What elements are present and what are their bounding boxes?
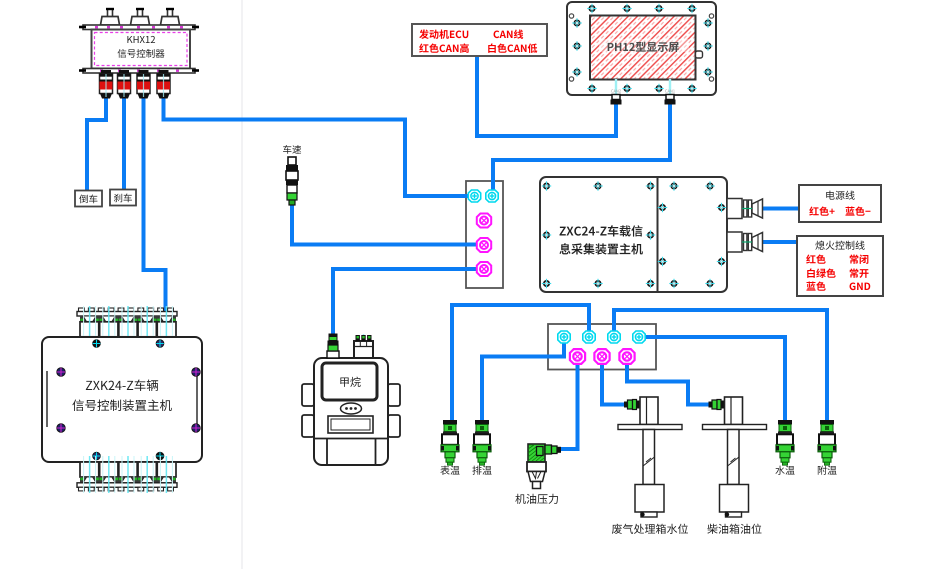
- KHX12 bottom cable connector 2: [118, 70, 131, 99]
- display CAN1 connector: [665, 79, 676, 105]
- ZXC screw 5: [705, 181, 714, 190]
- display right side tab: [696, 51, 703, 58]
- display screw left 1: [572, 18, 581, 27]
- display inner corner holes: [569, 14, 713, 81]
- display screw bottom 2: [622, 84, 631, 93]
- ZXC screw 16: [717, 257, 726, 266]
- display screen with red hatch: [590, 16, 696, 80]
- diesel tank fuel level sensor: [703, 397, 767, 534]
- ZXK24-Z bottom terminal row: [77, 456, 177, 493]
- power line label box: [799, 185, 881, 222]
- KHX12 bottom cable connector 3: [137, 70, 150, 99]
- ZXC24-Z acquisition unit body: [540, 177, 727, 292]
- auxiliary temperature sensor: [818, 420, 837, 475]
- wire KHX conn1 to reverse-signal box: [87, 95, 106, 191]
- junction strip port M1: [477, 214, 491, 228]
- display screw top 2: [622, 4, 631, 13]
- ZXC screw 7: [593, 279, 602, 288]
- surface temperature sensor: [440, 420, 459, 475]
- sensor strip cyan port 3: [608, 331, 620, 343]
- display screw right 3: [703, 67, 712, 76]
- wire ZXC power connector to power-line label: [763, 207, 798, 211]
- wire sensor strip mag2 to exhaust-tank level sensor: [602, 360, 626, 405]
- wire sensor strip mag3 to diesel-tank level sensor: [627, 360, 710, 405]
- ZXC screw 14: [658, 257, 667, 266]
- ZXC screw 11: [542, 230, 551, 239]
- sensor strip magenta port 1: [570, 349, 585, 364]
- display screw left 2: [572, 41, 581, 50]
- wire ZXC flameout connector to flameout-control label: [763, 240, 798, 244]
- wire display CAN1 port to junction strip cyan port B: [493, 100, 670, 193]
- sensor strip magenta port 2: [594, 349, 609, 364]
- display screw bottom 3: [654, 84, 663, 93]
- display screw top 3: [654, 4, 663, 13]
- ZXK screw left-lower: [57, 424, 65, 432]
- ZXC screw 13: [658, 203, 667, 212]
- vehicle speed sensor: [286, 157, 298, 205]
- methane detector cable connector (top-left): [327, 334, 339, 359]
- KHX12 top mounting rail: [79, 25, 199, 30]
- display CAN2 connector: [611, 79, 622, 105]
- display screw right 2: [703, 41, 712, 50]
- vehicle speed sensor label: [283, 145, 301, 154]
- junction strip cyan port A: [468, 190, 480, 202]
- ZXC screw 1: [542, 181, 551, 190]
- oil pressure sensor: [515, 444, 561, 504]
- ZXK screw bottom-left: [93, 452, 101, 460]
- flameout control line label box: [797, 236, 883, 296]
- reverse-gear signal label box: [75, 191, 102, 207]
- wire KHX conn3 down to ZXK24-Z main unit: [144, 95, 166, 312]
- ZXC screw 3: [646, 181, 655, 190]
- KHX12 bottom cable connector 1: [100, 70, 113, 99]
- display screw bottom 4: [687, 84, 696, 93]
- junction strip port M3 (methane): [477, 262, 491, 276]
- KHX12 bottom cable connector 4: [157, 70, 170, 99]
- wire sensor strip mag1 to oil-pressure sensor: [560, 360, 578, 449]
- KHX12 bottom mounting rail: [79, 69, 199, 74]
- ZXK screw left-upper: [57, 368, 65, 376]
- wire sensor strip cyan1 to exhaust-temp sensor: [482, 341, 564, 424]
- methane detector logo oval: [341, 403, 362, 414]
- sensor strip cyan port 4: [633, 331, 645, 343]
- PH12 display outer frame: [567, 2, 716, 95]
- junction strip (vertical) box: [466, 181, 503, 288]
- display screw right 1: [703, 18, 712, 27]
- sensor strip magenta port 3: [619, 349, 634, 364]
- junction strip port M2 (speed): [477, 238, 491, 252]
- ZXK screw bottom-right: [156, 452, 164, 460]
- ZXC screw 10: [705, 279, 714, 288]
- wire sensor strip cyan2 to surface-temp sensor: [452, 305, 589, 424]
- ZXC power connector: [727, 199, 763, 219]
- exhaust-treatment tank water level sensor: [612, 397, 688, 534]
- ZXK24-Z top terminal row: [77, 306, 177, 343]
- methane detector name plate: [328, 416, 373, 433]
- wire sensor strip cyan3 to aux-temp sensor: [614, 310, 827, 424]
- methane detector terminal block (top-right): [354, 334, 373, 358]
- brake signal label box: [110, 190, 136, 206]
- page fold line: [241, 0, 243, 569]
- ZXC screw 9: [669, 279, 678, 288]
- KHX12 signal controller top plug 1: [101, 9, 120, 27]
- sensor strip cyan port 1: [558, 331, 570, 343]
- ZXK screw right-upper: [192, 368, 200, 376]
- display screw left 3: [572, 67, 581, 76]
- ZXK24-Z main unit body: [42, 337, 202, 462]
- exhaust temperature sensor: [472, 420, 491, 475]
- ZXC screw 2: [593, 181, 602, 190]
- display screw bottom 1: [587, 84, 596, 93]
- ZXC screw 15: [717, 203, 726, 212]
- display screw top 1: [587, 4, 596, 13]
- wire engine ECU CAN line to display CAN2 port: [477, 54, 616, 136]
- water temperature sensor: [775, 420, 794, 475]
- junction strip cyan port B: [486, 190, 498, 202]
- methane detector screen: [322, 363, 377, 400]
- ZXC flameout-control connector: [727, 232, 763, 252]
- sensor strip cyan port 2: [583, 331, 595, 343]
- ZXC screw 8: [646, 279, 655, 288]
- engine ECU CAN note box: [412, 24, 547, 56]
- sensor junction strip (horizontal) box: [548, 324, 656, 370]
- wire sensor strip cyan4 to water-temp sensor: [643, 337, 785, 424]
- ZXK screw right-lower: [192, 424, 200, 432]
- display screw top 4: [687, 4, 696, 13]
- ZXK screw top-right: [156, 340, 164, 348]
- wire KHX conn2 to brake-signal box: [122, 95, 126, 190]
- wire KHX conn4 to junction strip cyan port A: [164, 95, 473, 196]
- methane detector body: [302, 358, 400, 465]
- ZXK screw top-left: [93, 340, 101, 348]
- KHX12 controller body: [92, 30, 191, 69]
- ZXC screw 4: [669, 181, 678, 190]
- ZXC screw 6: [542, 279, 551, 288]
- ZXC screw 12: [646, 230, 655, 239]
- wire speed sensor to junction strip port M2: [292, 204, 479, 245]
- wire methane detector to junction strip port M3: [333, 269, 479, 336]
